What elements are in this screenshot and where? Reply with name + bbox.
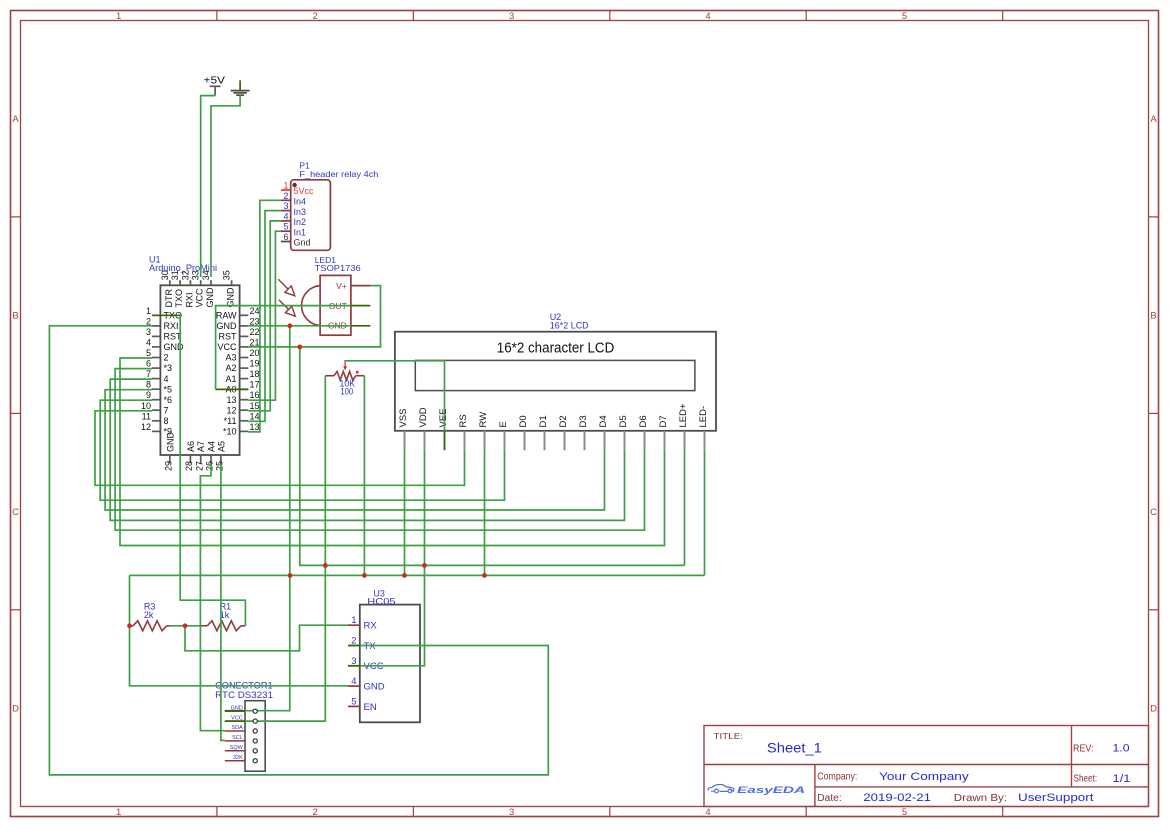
svg-text:2: 2: [283, 191, 288, 201]
wire LED- drop to bus row B: [704, 450, 706, 575]
U1 left pin stub y=315.3: [152, 314, 160, 316]
U2 pin stub x=584.5: [584, 431, 586, 450]
U1 bottom pin stub x=169.8: [169, 455, 171, 464]
svg-text:D7: D7: [658, 415, 669, 427]
svg-text:A: A: [1150, 114, 1157, 125]
svg-text:1.0: 1.0: [1113, 743, 1130, 755]
svg-text:RXI: RXI: [184, 292, 194, 307]
U3 pin stub VCC: [348, 665, 360, 667]
wire U1 pin14 to P1 In3: [248, 211, 281, 422]
CONECTOR1 pin stub GND: [225, 710, 245, 712]
svg-text:GND: GND: [226, 287, 236, 308]
P1 pin stub y=220.9: [281, 220, 291, 222]
svg-text:23: 23: [250, 316, 260, 326]
LED1 pin stub V+: [351, 285, 371, 287]
U2 display window: [415, 360, 695, 390]
CONECTOR1 pin pad VCC: [253, 719, 257, 723]
wire over RTC GND stub: [225, 710, 245, 712]
svg-text:E: E: [498, 421, 509, 427]
op-amp U1 Arduino_ProMini body: [160, 285, 239, 455]
svg-text:5: 5: [902, 807, 907, 818]
svg-text:D4: D4: [598, 415, 609, 427]
U3 pin stub TX: [348, 645, 360, 647]
U1 right pin stub y=346.9: [240, 346, 249, 348]
U1 top pin stub x=190.4: [189, 280, 191, 285]
svg-text:2k: 2k: [144, 610, 154, 620]
CONECTOR1 pin pad SQW: [253, 749, 257, 753]
wire RW drop to bus row B: [484, 450, 486, 575]
svg-text:RS: RS: [458, 414, 469, 427]
U2 pin stub x=704.5: [704, 431, 706, 450]
svg-text:A5: A5: [216, 441, 226, 452]
svg-text:B: B: [1150, 311, 1156, 322]
U2 pin stub x=424.5: [424, 431, 426, 450]
U1 left pin stub y=346.9: [152, 346, 160, 348]
P1 pin-1 marker dot: [292, 183, 296, 187]
svg-text:GND: GND: [165, 432, 175, 453]
svg-text:A1: A1: [225, 374, 236, 384]
svg-text:TSOP1736: TSOP1736: [315, 263, 361, 273]
wire over LED1 OUT stub: [351, 305, 371, 307]
U1 right pin stub y=399.7: [240, 399, 249, 401]
svg-text:3: 3: [146, 327, 151, 337]
svg-text:1/1: 1/1: [1113, 773, 1131, 785]
U1 left pin stub y=368.1: [152, 367, 160, 369]
svg-text:1: 1: [283, 181, 288, 191]
junction dot (364.4,575.4): [362, 573, 367, 578]
svg-text:UserSupport: UserSupport: [1018, 792, 1094, 804]
svg-text:In4: In4: [294, 197, 307, 207]
wire U1 pin15 to P1 In2: [248, 221, 281, 411]
svg-text:1: 1: [116, 11, 121, 22]
svg-text:EasyEDA: EasyEDA: [737, 785, 805, 795]
U1 top pin stub x=180.1: [179, 280, 181, 285]
svg-text:5Vcc: 5Vcc: [294, 186, 315, 196]
junction dot (290,575.4): [288, 573, 293, 578]
CONECTOR1 pin stub SQW: [225, 750, 245, 752]
U2 pin stub x=484.5: [484, 431, 486, 450]
svg-text:13: 13: [250, 422, 260, 432]
svg-text:12: 12: [141, 422, 151, 432]
svg-text:2: 2: [164, 353, 169, 363]
U1 right pin stub y=420.8: [240, 420, 249, 422]
svg-text:A4: A4: [207, 441, 217, 452]
svg-text:SDA: SDA: [231, 725, 243, 731]
LED1 TSOP1736 body: [320, 275, 351, 335]
junction dot (484.5,575.4): [482, 573, 487, 578]
svg-text:18: 18: [250, 369, 260, 379]
svg-text:4: 4: [283, 211, 288, 221]
U3 pin stub RX: [348, 624, 360, 626]
svg-text:D5: D5: [618, 415, 629, 427]
U1 left pin stub y=325.9: [152, 325, 160, 327]
wire pot left terminal to bus row A and RTC VCC: [245, 376, 325, 721]
U1 right pin stub y=315.3: [240, 314, 249, 316]
U2 pin stub x=664.5: [664, 431, 666, 450]
svg-text:5: 5: [283, 222, 288, 232]
svg-text:7: 7: [164, 405, 169, 415]
junction dot (185,625.8): [183, 623, 188, 628]
svg-text:VCC: VCC: [217, 342, 237, 352]
svg-text:5: 5: [351, 696, 356, 707]
svg-text:D6: D6: [638, 415, 649, 427]
wire over HC05 TX stub: [348, 645, 360, 647]
svg-text:*10: *10: [223, 427, 237, 437]
wire row B left end down to HC05 GND: [130, 575, 349, 685]
U3 pin stub EN: [348, 705, 360, 707]
U1 right pin stub y=378.6: [240, 378, 249, 380]
wire U1 pin6 to LCD D6: [115, 369, 644, 531]
CONECTOR1 pin stub 32K: [225, 760, 245, 762]
svg-text:7: 7: [146, 369, 151, 379]
svg-text:RST: RST: [219, 332, 238, 342]
svg-text:17: 17: [250, 380, 260, 390]
P1 pin stub y=241.5: [281, 241, 291, 243]
svg-text:RST: RST: [164, 332, 183, 342]
svg-text:12: 12: [226, 405, 236, 415]
svg-text:5: 5: [902, 11, 907, 22]
svg-text:28: 28: [184, 461, 194, 471]
U1 bottom pin stub x=211.0: [210, 455, 212, 464]
svg-text:2: 2: [146, 316, 151, 326]
CONECTOR1 pin stub VCC: [225, 720, 245, 722]
svg-text:HC05: HC05: [367, 596, 395, 606]
svg-text:RAW: RAW: [216, 311, 237, 321]
P1 pin stub y=200.3: [281, 199, 291, 201]
wire VDD drop and HC05 VCC: [360, 450, 425, 666]
svg-text:3: 3: [509, 11, 514, 22]
svg-text:100: 100: [340, 387, 353, 397]
junction dot (424.5,565.4): [422, 563, 427, 568]
svg-text:13: 13: [226, 395, 236, 405]
wire R3 right to R1 left: [170, 625, 201, 627]
svg-text:*3: *3: [164, 363, 173, 373]
svg-text:Sheet_1: Sheet_1: [767, 741, 822, 756]
svg-text:In3: In3: [294, 207, 307, 217]
svg-text:Date:: Date:: [817, 793, 841, 804]
U1 bottom pin stub x=200.7: [200, 455, 202, 464]
U1 top pin stub x=169.8: [169, 280, 171, 285]
svg-text:A7: A7: [196, 441, 206, 452]
wire net GND vertical to RTC GND: [245, 326, 290, 711]
wire net VCC vertical and bus row A: [300, 347, 685, 566]
svg-text:16: 16: [250, 390, 260, 400]
resistor R1 1k: [201, 625, 207, 627]
potentiometer R2 10K trimmer: [325, 375, 334, 377]
U1 right pin stub y=368.1: [240, 367, 249, 369]
wire net VCC: U1 pin21 to LED1 V+: [248, 286, 380, 347]
U1 bottom pin stub x=220.9: [220, 455, 222, 464]
svg-text:VCC: VCC: [195, 288, 205, 308]
LED1 receiver dome arc: [302, 286, 321, 326]
svg-text:26: 26: [205, 461, 215, 471]
LED1 IR arrow 2: [279, 300, 289, 310]
wire bus row B (GND): [130, 574, 705, 576]
svg-text:*5: *5: [164, 384, 173, 394]
svg-text:Sheet:: Sheet:: [1074, 774, 1098, 785]
P1 pin stub y=190.0: [281, 189, 291, 191]
svg-text:A: A: [12, 114, 19, 125]
svg-text:SQW: SQW: [230, 745, 244, 751]
U1 bottom pin stub x=190.4: [189, 455, 191, 464]
svg-text:D: D: [1150, 704, 1157, 715]
svg-text:15: 15: [250, 401, 260, 411]
svg-text:C: C: [1150, 507, 1157, 518]
ground symbol: [239, 80, 241, 90]
svg-text:2: 2: [313, 11, 318, 22]
svg-text:REV:: REV:: [1073, 744, 1094, 755]
U1 right pin stub y=325.9: [240, 325, 249, 327]
CONECTOR1 pin stub SDA: [225, 730, 245, 732]
svg-text:A2: A2: [225, 363, 236, 373]
U2 16*2 LCD body: [395, 332, 716, 431]
svg-text:RX: RX: [364, 621, 378, 632]
svg-text:VCC: VCC: [364, 661, 384, 672]
svg-text:24: 24: [250, 306, 260, 316]
svg-text:1: 1: [116, 807, 121, 818]
svg-text:14: 14: [250, 411, 260, 421]
U3 HC05 body: [360, 605, 420, 723]
svg-text:B: B: [12, 311, 18, 322]
U2 pin stub x=684.5: [684, 431, 686, 450]
svg-text:C: C: [12, 507, 19, 518]
wire U1 pin5 to LCD D7: [120, 358, 665, 546]
U1 top pin stub x=200.7: [200, 280, 202, 285]
svg-text:6: 6: [146, 359, 151, 369]
svg-text:TX: TX: [364, 641, 377, 652]
U1 right pin stub y=431.4: [240, 430, 249, 432]
svg-text:9: 9: [146, 390, 151, 400]
svg-text:A3: A3: [225, 353, 236, 363]
svg-text:GND: GND: [217, 321, 238, 331]
U2 pin stub x=464.5: [464, 431, 466, 450]
svg-text:2: 2: [313, 807, 318, 818]
svg-text:RTC DS3231: RTC DS3231: [215, 690, 273, 700]
P1 pin stub y=210.6: [281, 210, 291, 212]
U2 pin stub x=604.5: [604, 431, 606, 450]
CONECTOR1 pin pad GND: [253, 709, 257, 713]
svg-text:8: 8: [164, 416, 169, 426]
wire ground symbol to U1 pin34: [211, 95, 240, 277]
svg-text:D3: D3: [578, 415, 589, 427]
junction dot (129.5,625.8): [127, 623, 132, 628]
svg-text:D: D: [12, 704, 19, 715]
svg-text:+5V: +5V: [204, 76, 226, 87]
svg-text:1: 1: [351, 615, 356, 626]
wire net A5 to RTC SCL: [221, 464, 225, 741]
wire U1 pin16 to P1 In1: [248, 231, 281, 400]
svg-text:Company:: Company:: [817, 772, 857, 783]
connector P1 F_header relay 4ch body: [291, 180, 331, 251]
svg-text:3: 3: [509, 807, 514, 818]
wire pot right terminal to bus row B: [363, 376, 365, 576]
U2 pin stub x=624.5: [624, 431, 626, 450]
svg-text:22: 22: [250, 327, 260, 337]
U2 pin stub x=404.5: [404, 431, 406, 450]
wire pot wiper to LCD VEE: [345, 361, 444, 431]
svg-text:In2: In2: [294, 217, 307, 227]
svg-text:GND: GND: [364, 682, 385, 693]
wire +5V to U1 pin33: [201, 96, 215, 277]
wire over U1 pin17 stub (A0): [216, 388, 249, 390]
U1 top pin stub x=231.6: [231, 280, 233, 285]
title block: [704, 726, 1149, 807]
U1 left pin stub y=389.2: [152, 388, 160, 390]
svg-text:4: 4: [351, 676, 356, 687]
wire net GND: U1 pin23 to LED1 GND: [248, 325, 351, 327]
wire divider node to HC05 RX: [185, 625, 348, 651]
CONECTOR1 pin pad SDA: [253, 729, 257, 733]
svg-text:35: 35: [222, 270, 232, 280]
U2 pin stub x=524.5: [524, 431, 526, 450]
svg-text:V+: V+: [336, 281, 347, 291]
U2 pin stub x=544.5: [544, 431, 546, 450]
svg-text:*11: *11: [224, 416, 237, 426]
svg-text:32K: 32K: [233, 755, 243, 761]
svg-text:8: 8: [146, 380, 151, 390]
svg-text:5: 5: [146, 348, 151, 358]
junction dot (325.3,565.4): [323, 563, 328, 568]
svg-text:Your Company: Your Company: [879, 771, 969, 783]
U1 left pin stub y=410.2: [152, 409, 160, 411]
svg-text:16*2 LCD: 16*2 LCD: [550, 320, 589, 330]
svg-text:25: 25: [215, 461, 225, 471]
svg-text:RW: RW: [478, 412, 489, 428]
CONECTOR1 pin stub SCL: [225, 740, 245, 742]
svg-text:In1: In1: [294, 227, 307, 237]
wire over LCD VEE stub: [444, 431, 446, 450]
svg-text:4: 4: [705, 11, 710, 22]
svg-text:EN: EN: [364, 702, 377, 713]
P1 pin stub y=231.2: [281, 230, 291, 232]
wire LED+ drop to bus row A: [684, 450, 686, 565]
U2 pin stub x=444.5: [444, 431, 446, 450]
connector CONECTOR1 RTC DS3231 body: [245, 701, 265, 772]
U1 left pin stub y=431.4: [152, 430, 160, 432]
svg-text:TITLE:: TITLE:: [714, 731, 744, 741]
svg-text:4: 4: [705, 807, 710, 818]
wire U1 pin10 to LCD RS: [95, 411, 465, 486]
U1 left pin stub y=336.4: [152, 335, 160, 337]
svg-text:16*2 character LCD: 16*2 character LCD: [497, 340, 615, 357]
svg-text:3: 3: [283, 201, 288, 211]
U1 right pin stub y=389.2: [240, 388, 249, 390]
svg-text:SCL: SCL: [232, 735, 243, 741]
U2 pin stub x=504.5: [504, 431, 506, 450]
svg-text:F_header relay 4ch: F_header relay 4ch: [299, 169, 378, 179]
svg-text:GND: GND: [205, 287, 215, 308]
svg-text:10: 10: [141, 401, 151, 411]
U2 pin stub x=644.5: [644, 431, 646, 450]
U1 left pin stub y=399.7: [152, 399, 160, 401]
wire U1 pin7 to LCD D5: [110, 379, 624, 520]
U1 left pin stub y=378.6: [152, 378, 160, 380]
svg-text:LED-: LED-: [698, 406, 709, 428]
wire over U1 pin1 stub: [152, 314, 180, 316]
U1 right pin stub y=357.5: [240, 357, 249, 359]
resistor R3 2k: [131, 625, 133, 627]
wire net RXI: U1 pin2 to HC05 TX via bottom: [49, 326, 548, 775]
svg-text:VSS: VSS: [398, 408, 409, 427]
svg-text:*6: *6: [164, 395, 173, 405]
svg-text:VEE: VEE: [438, 408, 449, 427]
wire net OUT: LED1 OUT to U1 A0: [216, 306, 351, 390]
CONECTOR1 pin pad 32K: [253, 759, 257, 763]
junction dot (404.5,575.4): [402, 573, 407, 578]
wire over LED1 GND stub: [351, 325, 371, 327]
svg-text:D0: D0: [518, 415, 529, 427]
wire over RTC VCC stub: [225, 720, 245, 722]
wire over HC05 VCC stub: [348, 665, 360, 667]
U1 left pin stub y=357.5: [152, 357, 160, 359]
svg-text:Gnd: Gnd: [294, 238, 311, 248]
wire VSS drop to bus row B: [404, 450, 406, 575]
svg-text:Arduino_ProMini: Arduino_ProMini: [149, 263, 217, 273]
svg-text:TXO: TXO: [174, 289, 184, 308]
junction dot (289.8,325.8): [287, 323, 292, 328]
svg-text:6: 6: [283, 232, 288, 242]
svg-text:4: 4: [164, 374, 169, 384]
CONECTOR1 pin pad SCL: [253, 739, 257, 743]
EasyEDA logo (car + wordmark): [708, 785, 734, 793]
svg-text:11: 11: [142, 411, 151, 421]
potentiometer wiper arrow: [344, 361, 346, 366]
wire U1 pin8 to LCD D4: [105, 390, 604, 510]
svg-text:VDD: VDD: [418, 407, 429, 427]
junction dot (299.8,346.9): [297, 345, 302, 350]
svg-text:D2: D2: [558, 415, 569, 427]
svg-text:20: 20: [250, 348, 260, 358]
svg-text:Drawn By:: Drawn By:: [954, 793, 1007, 804]
svg-text:RXI: RXI: [164, 321, 179, 331]
svg-text:2019-02-21: 2019-02-21: [863, 792, 931, 804]
svg-text:4: 4: [146, 337, 151, 347]
svg-text:27: 27: [194, 461, 204, 471]
svg-text:1: 1: [146, 306, 151, 316]
U2 pin stub x=564.5: [564, 431, 566, 450]
U1 right pin stub y=410.2: [240, 409, 249, 411]
wire U1 pin13 to P1 In4: [248, 200, 281, 432]
U1 right pin stub y=336.4: [240, 335, 249, 337]
svg-text:D1: D1: [538, 415, 549, 427]
wire U1 pin9 to LCD E: [100, 400, 504, 500]
wire net TXO: U1 pin1 down to R1 right: [180, 315, 245, 626]
U1 left pin stub y=420.8: [152, 420, 160, 422]
svg-text:19: 19: [250, 359, 260, 369]
svg-text:29: 29: [164, 461, 174, 471]
svg-text:21: 21: [250, 337, 260, 347]
U1 top pin stub x=211.0: [210, 280, 212, 285]
wire net A4 to RTC SDA: [200, 464, 224, 731]
potentiometer star mark: [356, 371, 359, 374]
LED1 IR arrow 1: [278, 279, 288, 289]
U3 pin stub GND: [348, 685, 360, 687]
svg-text:A6: A6: [186, 441, 196, 452]
svg-text:DTR: DTR: [164, 289, 174, 308]
svg-text:LED+: LED+: [678, 403, 689, 427]
